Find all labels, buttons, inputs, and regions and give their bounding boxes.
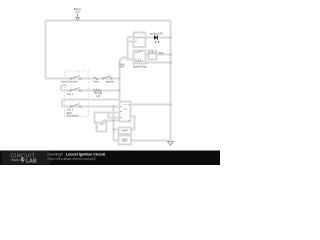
svg-text:http://circuitlab.com/c/cnwp62: http://circuitlab.com/c/cnwp62 [48, 157, 96, 161]
svg-text:LAB: LAB [26, 159, 37, 165]
svg-text:mantingh : Locost Ignition Cir: mantingh : Locost Ignition Circuit [48, 153, 106, 157]
